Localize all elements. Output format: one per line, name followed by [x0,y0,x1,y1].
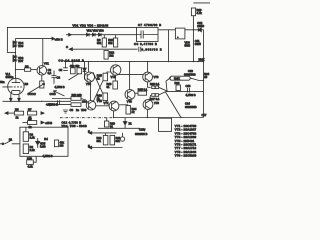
resistor R16 [103,93,108,101]
node junction VT3 [88,61,89,62]
wire VT8 emitter stub [129,100,131,103]
resistor R2 [23,132,28,142]
svg-text:VT5: VT5 [97,99,102,103]
node K1 dot [177,36,179,38]
svg-text:4,7/63 B: 4,7/63 B [186,93,196,97]
resistor R18 [113,81,118,89]
svg-text:91: 91 [107,85,110,89]
svg-text:Z1: Z1 [129,122,133,126]
svg-text:6H23n: 6H23n [6,75,14,79]
node VT list [175,124,197,158]
svg-text:VD6: VD6 [81,108,87,112]
wire 40k tops [72,62,74,68]
svg-text:R33: R33 [27,156,32,160]
svg-text:50n: 50n [0,80,5,84]
svg-text:R8: R8 [25,82,29,86]
svg-text:22/63: 22/63 [197,24,204,28]
node lower rail dots [10,101,11,102]
wire R5 row [8,112,14,114]
svg-text:2k2: 2k2 [108,41,113,45]
resistor R11 [40,81,44,88]
wire lower mid rail [98,127,140,129]
potentiometer arrow R11 [28,84,45,94]
wire terminal [122,133,124,137]
resistor pair 40k 40k [71,68,76,74]
wire dashed annotation [60,117,114,119]
svg-text:0,068/63 B: 0,068/63 B [142,48,163,52]
wire VT2 emitter to R18 [114,75,117,81]
wire R9 chain [103,35,105,38]
svg-text:4,7/63 B: 4,7/63 B [55,85,65,89]
resistor R27a [152,94,155,97]
switch S1 [5,140,20,143]
svg-text:C: C [66,45,68,49]
svg-text:C17: C17 [202,113,207,117]
wire branch down x168.5 [168,30,170,62]
wire node to bottom rail diagonal [166,92,182,118]
wire R10 drop [115,35,117,38]
tube VL1 anode [12,78,20,82]
wire cross diagonal A [93,72,109,105]
wire R19 [106,118,108,122]
node arrow R8 right [41,121,44,124]
resistor R7 [28,111,37,115]
svg-text:091: 091 [97,139,102,143]
transistor VT5 [86,101,96,111]
zener VD10 [83,62,87,80]
wire emitter resistors converge [159,87,167,95]
capacitor C6 [63,68,68,71]
wire VT6 emitter down [148,82,151,87]
wire tube pin 2 [18,94,20,102]
resistor R13 [71,97,81,101]
resistor R31 [110,135,115,145]
resistor R25 [138,91,147,95]
wire R20 top [193,2,210,4]
svg-text:5k1: 5k1 [97,41,102,45]
node arrow left bottom [89,146,92,149]
svg-text:91: 91 [110,124,113,128]
wire output to label [166,78,171,82]
wire top-left corner link [7,52,15,54]
transistor VT1 [37,66,47,76]
wire tube pin 1 [10,94,12,102]
svg-text:10: 10 [204,75,207,79]
wire VT9 collector down [146,109,148,117]
wire VT5 to VT7 [96,105,109,107]
wire twins [105,133,107,136]
svg-text:+15 B: +15 B [45,121,52,125]
resistor R27b [155,94,158,97]
svg-text:C12 4,7/63 B: C12 4,7/63 B [62,120,82,124]
wire mid rail [64,61,204,63]
wire R13 left [52,98,71,100]
svg-text:R4: R4 [44,137,48,141]
node input jack [0,143,5,145]
node junction out right [203,80,204,81]
wire +50V branch [15,38,50,40]
svg-text:C16: C16 [186,84,191,88]
node junction out [197,61,198,62]
node arrow left top [89,132,92,135]
wire VT8 to R25 [135,92,138,94]
node rail junction dots [65,61,66,62]
wire R8 row [22,122,27,124]
svg-text:4,7/63 B: 4,7/63 B [48,103,58,107]
resistor R10 [114,38,118,47]
wire R33 right [33,156,36,162]
node arrow R7 right [41,112,44,115]
svg-text:VT6: VT6 [154,75,159,79]
resistor R28 [176,85,181,91]
wire C input net [73,48,138,50]
svg-text:6800/63B: 6800/63B [185,105,197,109]
node protection box [159,118,172,131]
svg-text:5W6: 5W6 [185,44,191,48]
potentiometer wiper arrow mid [54,91,65,96]
resistor R20 [191,8,195,16]
resistor R3 [23,144,28,154]
node junction right rail [203,61,204,62]
svg-text:4.3k: 4.3k [28,165,34,169]
wire VT1 collector to +50V [42,39,44,66]
transistor VT7 [109,101,119,111]
svg-text:E: E [88,144,90,148]
diode VD8 [198,28,201,32]
transistor VT3 [85,72,95,82]
capacitor C2 [52,71,57,84]
wire VT3 collector [87,62,89,73]
svg-text:VD1 VD2 VD3: VD1 VD2 VD3 [87,29,105,33]
node junction VT6 rail [147,61,148,62]
svg-text:VT1: VT1 [44,62,49,66]
wire cross diagonal B [93,72,111,102]
svg-text:E: E [88,130,90,134]
svg-text:R5: R5 [15,108,19,112]
svg-text:1%: 1% [60,144,64,148]
capacitor C7 C8 box [137,27,159,41]
node junction rail dots [147,117,148,118]
diode VD4 [13,41,16,44]
svg-text:R28: R28 [175,81,180,85]
node output tag [169,76,191,80]
svg-text:6800/63 B: 6800/63 B [135,132,147,136]
svg-text:C6: C6 [70,108,74,112]
wire box internals [25,127,27,132]
diode VD2 [93,33,96,36]
tube VL1 cathode [12,91,20,94]
svg-text:VT8: VT8 [127,100,132,104]
ground symbol [63,110,68,113]
transistor VT6 [143,72,153,82]
wire zobel row [167,90,204,93]
node junction R20 [193,29,194,30]
wire right column [203,30,205,118]
wire VT7 to R24 VT9 [119,104,128,106]
zener VD5box [36,138,40,148]
resistor R26a [152,86,155,89]
wire R13 R14 to VT5 [81,99,86,101]
resistor R26b [155,86,158,89]
node chain arrow [69,33,72,36]
feedback box [20,127,68,156]
svg-text:2k2: 2k2 [109,54,114,58]
resistor R6 [25,68,31,71]
svg-text:0805: 0805 [195,42,201,46]
relay K1 box [175,28,185,39]
capacitor C5 [58,100,60,104]
svg-text:S1: S1 [9,137,13,141]
svg-text:C2: C2 [57,76,61,80]
svg-text:VT7: VT7 [104,101,109,105]
svg-text:4,7/63 B: 4,7/63 B [43,154,53,158]
resistor R9 [102,38,106,47]
resistor R33 [27,160,34,165]
wire output diagonal [166,81,167,91]
diode VD5 [13,44,16,47]
svg-text:R8: R8 [28,117,32,121]
wire output tag right [191,78,204,80]
capacitor C16 [188,88,190,93]
wire bottom rail [114,117,204,119]
svg-text:OOC: OOC [50,92,56,96]
svg-text:C14: C14 [185,102,190,106]
node circle terminal [120,137,124,141]
svg-text:C7 4700/63 B: C7 4700/63 B [138,23,162,27]
wire VT3 emitter down [90,82,92,101]
transistor VT2 [111,65,121,75]
wire twin res top [92,132,117,134]
svg-text:VD1 VD2 VD3 - 1N4148: VD1 VD2 VD3 - 1N4148 [73,24,109,28]
potentiometer arrow R17 [69,74,80,81]
svg-text:5.6B: 5.6B [40,145,46,149]
svg-text:R27 0.1: R27 0.1 [150,97,160,101]
wire x65 gnd drop [65,62,67,68]
svg-text:C6: C6 [59,68,63,72]
svg-text:R25 0.1: R25 0.1 [138,88,148,92]
svg-text:VD7: VD7 [18,59,24,63]
svg-text:1k: 1k [16,116,19,120]
resistor R30 [103,135,108,145]
wire anode row [15,69,24,71]
capacitor C7 plates [137,31,159,39]
wire relay to right [185,29,204,31]
svg-text:VT9 - 2SC5200: VT9 - 2SC5200 [175,154,197,158]
wire twin res bottom [92,147,123,149]
node arrow R5 left [5,112,8,115]
diode VD7 [13,59,16,62]
diode VD6 [13,55,16,58]
tube VL1 envelope [8,78,24,94]
resistor R8 [28,121,37,125]
node C15 arrow [143,128,145,131]
resistor R14 [71,103,81,107]
svg-text:BbIX: BbIX [199,58,205,62]
svg-text:2.2k: 2.2k [30,148,36,152]
wire VT8 collector up [129,62,131,90]
svg-text:R13 20k: R13 20k [72,93,83,97]
svg-text:R6: R6 [25,65,29,69]
wire R20 down [192,16,194,62]
resistor R15 [103,73,108,81]
svg-text:091: 091 [116,139,121,143]
wire top feedback rail [7,27,136,52]
resistor R4 [54,140,58,147]
node C arrow [69,48,72,51]
wire lower-left rail [3,100,72,102]
wire VT2 emitter to VT6 [118,74,143,76]
diode VD3 [99,33,102,36]
svg-text:40k 40k: 40k 40k [70,64,80,68]
svg-text:2.2k: 2.2k [30,136,36,140]
svg-text:4.7k: 4.7k [197,11,203,15]
node +50V arrow [50,37,55,40]
wire R14 left [48,104,71,106]
transistor VT9 [143,100,153,110]
svg-text:BbIX: BbIX [174,77,180,81]
svg-text:2n: 2n [76,108,79,112]
wire C7 to relay [158,29,175,31]
wire R6 to VT1 [31,69,37,71]
wire below box [29,156,31,160]
tube VL1 grid [3,86,23,88]
svg-text:6800/63B: 6800/63B [184,72,196,76]
svg-text:VD5: VD5 [18,44,24,48]
svg-text:C8 0,47/63 B: C8 0,47/63 B [134,42,158,46]
wire diode chain vertical [14,39,16,79]
resistor R19 [105,121,109,127]
wire VT7 down [113,111,115,118]
svg-text:+50 B: +50 B [55,38,63,42]
wire VT1 emitter down [41,75,43,81]
node junction corner [15,52,16,53]
diode chain VD1-VD3 wire [66,34,137,36]
wire VT6 collector up [147,62,149,73]
resistor R5 [14,111,23,115]
diode VD1 [87,33,90,36]
diode VD11 [123,118,127,128]
node junction x168 [168,61,169,62]
svg-text:VT9: VT9 [154,101,159,105]
transistor VT8 [125,90,135,100]
svg-text:R7: R7 [28,108,32,112]
wire VT9 emitter up [150,95,151,100]
svg-text:OOOC: OOOC [28,92,36,96]
resistor R12 mid [104,51,108,60]
capacitor C9 [139,47,141,52]
svg-text:0,1: 0,1 [48,71,52,75]
resistor R24 [126,106,130,115]
